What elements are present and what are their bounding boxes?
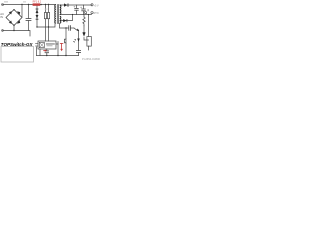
svg-text:PI-2654-010600: PI-2654-010600 xyxy=(82,57,100,61)
svg-text:IN: IN xyxy=(0,15,3,19)
svg-text:+5 V: +5 V xyxy=(94,4,99,7)
svg-text:RF1 8.2: RF1 8.2 xyxy=(33,1,42,4)
svg-text:RTN: RTN xyxy=(94,12,99,15)
svg-text:TOPSwitch-GX: TOPSwitch-GX xyxy=(1,42,34,47)
